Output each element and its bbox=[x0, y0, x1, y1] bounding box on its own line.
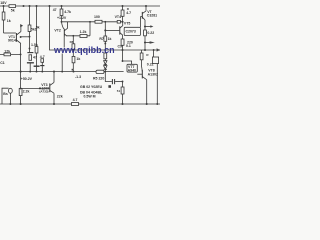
svg-text:www.qqibb.cn: www.qqibb.cn bbox=[53, 45, 115, 55]
arrow right edge bbox=[157, 48, 160, 51]
junction node (90,21.8) bbox=[89, 21, 91, 23]
wire VT1 emitter long vertical bbox=[20, 43, 22, 104]
svg-text:A940: A940 bbox=[128, 69, 136, 73]
transistor VT2 bbox=[62, 22, 64, 29]
svg-text:GB 02 Y02EU: GB 02 Y02EU bbox=[80, 85, 103, 89]
junction node (73.3,35.8) bbox=[72, 35, 74, 37]
junction node (145,26.5) bbox=[144, 25, 146, 27]
svg-text:C3281: C3281 bbox=[147, 14, 157, 18]
capacitor C2 electrolytic bbox=[27, 52, 33, 54]
svg-text:0.1: 0.1 bbox=[126, 44, 131, 48]
svg-text:VT5: VT5 bbox=[124, 22, 130, 26]
svg-text:R: R bbox=[146, 53, 149, 57]
svg-text:4.7k: 4.7k bbox=[64, 10, 71, 14]
svg-text:4.7: 4.7 bbox=[73, 98, 78, 102]
transistor VT4 bbox=[105, 29, 119, 31]
svg-text:4.7: 4.7 bbox=[40, 55, 45, 59]
wire top supply rail bbox=[0, 5, 160, 7]
diode VD2 bbox=[104, 66, 107, 70]
junction node (153.6,50) bbox=[153, 49, 155, 51]
junction node (36.5,71.6) bbox=[36, 71, 38, 73]
svg-text:1k: 1k bbox=[108, 37, 112, 41]
svg-text:1.5k: 1.5k bbox=[31, 43, 38, 47]
junction node (146.7,104) bbox=[146, 103, 148, 105]
resistor R13 bbox=[104, 53, 107, 59]
junction node (105.3,43.5) bbox=[104, 43, 106, 45]
svg-text:+50.2V: +50.2V bbox=[21, 77, 33, 81]
junction node (122.5,81.5) bbox=[122, 81, 124, 83]
junction node (29.5,48.5) bbox=[29, 48, 31, 50]
svg-text:12k: 12k bbox=[4, 49, 10, 53]
input source Bs bbox=[2, 88, 9, 104]
svg-text:R5 220: R5 220 bbox=[93, 77, 104, 81]
svg-text:A1302: A1302 bbox=[148, 73, 158, 77]
junction node (23.5,6) bbox=[22, 5, 24, 7]
resistor R15 bbox=[121, 10, 124, 16]
resistor R19 0.22 top bbox=[144, 30, 147, 36]
transistor VT7 bbox=[137, 73, 142, 75]
svg-text:VT4: VT4 bbox=[115, 15, 121, 19]
svg-text:0.5W M: 0.5W M bbox=[84, 94, 96, 98]
junction node (42.3,71.6) bbox=[41, 71, 43, 73]
junction node (54,104) bbox=[53, 103, 55, 105]
resistor R1 in rail bbox=[9, 5, 16, 8]
junction node (54,71.6) bbox=[53, 71, 55, 73]
wire arrow out2 bbox=[145, 42, 150, 44]
svg-text:C2073: C2073 bbox=[126, 30, 136, 34]
junction node (3.5,6) bbox=[2, 5, 4, 7]
resistor R5 in mid rail bbox=[96, 70, 104, 73]
junction node (105.3,71.6) bbox=[104, 71, 106, 73]
junction node (36.5,6) bbox=[35, 5, 37, 7]
junction node (145,50) bbox=[144, 49, 146, 51]
svg-text:100: 100 bbox=[94, 15, 100, 19]
transistor VT1 bbox=[15, 33, 17, 42]
junction node (146,6) bbox=[145, 5, 147, 7]
junction node (30.2,71.6) bbox=[29, 71, 31, 73]
resistor R10 in emitter wire bbox=[80, 35, 87, 38]
wire left column bbox=[3, 6, 5, 33]
svg-text:C1: C1 bbox=[0, 61, 5, 65]
svg-text:1.2k: 1.2k bbox=[80, 30, 87, 34]
junction dots bbox=[2, 5, 158, 105]
svg-text:R7: R7 bbox=[99, 37, 104, 41]
svg-text:51: 51 bbox=[117, 89, 121, 93]
svg-text:1k: 1k bbox=[7, 19, 11, 23]
junction node (157.3,104) bbox=[156, 103, 158, 105]
wire VT1 collector stub bbox=[20, 25, 22, 32]
junction node (61.5,6) bbox=[60, 5, 62, 7]
wire column x29.5 bbox=[29, 6, 31, 52]
svg-text:VT2: VT2 bbox=[54, 28, 60, 32]
svg-text:+1.2V: +1.2V bbox=[57, 16, 67, 20]
svg-text:(A733): (A733) bbox=[39, 89, 48, 93]
svg-text:0.22: 0.22 bbox=[147, 62, 154, 66]
wire stub under VT2 bbox=[63, 37, 65, 48]
wire y61 to driver box bbox=[123, 61, 132, 64]
resistor R12 bbox=[104, 36, 107, 41]
junction node (145,42.5) bbox=[144, 41, 146, 43]
junction node (73.5,71.6) bbox=[73, 71, 75, 73]
wire VT1 base bbox=[4, 32, 16, 34]
component small box in wire y21.8 bbox=[117, 21, 120, 24]
svg-text:47: 47 bbox=[53, 8, 57, 12]
resistor R16 in bottom rail bbox=[72, 103, 79, 106]
wire right edge down bbox=[156, 64, 158, 105]
junction node (105.3,30.4) bbox=[104, 29, 106, 31]
resistor R3 bbox=[28, 25, 31, 32]
wire column x36.5 bbox=[36, 6, 38, 66]
resistor R17 220 bbox=[121, 39, 124, 45]
svg-text:18V: 18V bbox=[0, 1, 7, 5]
capacitor C4 left small bbox=[41, 59, 44, 63]
junction node (20.6,54.4) bbox=[20, 53, 22, 55]
junction node (29.5,36.6) bbox=[29, 36, 31, 38]
svg-text:22k: 22k bbox=[57, 95, 63, 99]
resistor R5 bbox=[35, 47, 38, 54]
svg-text:47: 47 bbox=[33, 56, 37, 60]
junction node (20.6,88.4) bbox=[20, 87, 22, 89]
svg-text:5k: 5k bbox=[36, 26, 40, 30]
wire output column x145 bbox=[144, 20, 146, 50]
wire column x122.5 upper bbox=[122, 6, 124, 10]
diode VD1 bbox=[104, 61, 107, 65]
bottom ground rail bbox=[0, 103, 160, 105]
svg-text:1k: 1k bbox=[76, 57, 80, 61]
transistor VT6 bbox=[141, 16, 143, 18]
wire x105 lower corner to cap bbox=[105, 72, 112, 82]
junction node (122.5,50) bbox=[121, 49, 123, 51]
mid rail wire bbox=[0, 71, 124, 73]
svg-text:-1.3: -1.3 bbox=[75, 75, 81, 79]
junction node (122.5,21.8) bbox=[121, 21, 123, 23]
resistor R7 top bbox=[61, 6, 63, 22]
resistor R6 input bbox=[4, 53, 11, 56]
resistor R11 in y21.8 wire bbox=[95, 20, 102, 23]
capacitor C5 bbox=[111, 79, 113, 84]
junction node (122.5,6) bbox=[121, 5, 123, 7]
junction node (29.5,6) bbox=[28, 5, 30, 7]
junction node (20.6,37) bbox=[20, 36, 22, 38]
svg-text:0.22: 0.22 bbox=[147, 31, 154, 35]
text labels bbox=[0, 1, 158, 102]
wire x90 vertical bbox=[89, 22, 91, 36]
junction node (62.2,71.6) bbox=[61, 71, 63, 73]
svg-text:Bs: Bs bbox=[3, 92, 8, 96]
junction node (20.6,71.6) bbox=[20, 71, 22, 73]
junction node (122.5,61) bbox=[122, 60, 124, 62]
label box right speaker bbox=[153, 50, 155, 57]
resistor R14 bbox=[122, 82, 124, 105]
junction node (10.4,104) bbox=[9, 103, 11, 105]
wire column x49.5 bbox=[50, 6, 161, 50]
svg-text:9014: 9014 bbox=[8, 38, 16, 42]
svg-text:R8: R8 bbox=[70, 40, 74, 44]
wire feedback y37 bbox=[21, 36, 30, 38]
junction node (105.3,21.8) bbox=[104, 21, 106, 23]
wire arrow out1 bbox=[145, 26, 151, 28]
transistor VT3 bbox=[21, 87, 50, 89]
resistor R2 bbox=[2, 12, 5, 20]
label box VT4 part bbox=[124, 27, 140, 35]
junction node (20.6,104) bbox=[20, 103, 22, 105]
wire column x105 bbox=[104, 22, 106, 72]
resistor R9 bbox=[72, 56, 75, 62]
resistor R20 2.2k bbox=[19, 88, 22, 95]
resistor R18 0.22 bottom bbox=[141, 50, 143, 53]
svg-text:5k: 5k bbox=[11, 8, 15, 12]
junction node (61.5,21.8) bbox=[61, 21, 63, 23]
wire input y54.5 bbox=[0, 53, 21, 55]
wire y21.8 bbox=[62, 21, 123, 23]
label box VT7 part bbox=[127, 64, 137, 72]
capacitor C3 plate bbox=[34, 65, 40, 67]
junction node (105.3,50) bbox=[104, 49, 106, 51]
junction node (49.5,6) bbox=[48, 5, 50, 7]
resistor R8 bbox=[72, 36, 74, 72]
label blob C5 value bbox=[108, 85, 111, 88]
svg-text:C9: C9 bbox=[118, 45, 123, 49]
junction node (122.5,104) bbox=[121, 103, 123, 105]
svg-text:2.2k: 2.2k bbox=[23, 90, 30, 94]
svg-text:4.7: 4.7 bbox=[126, 11, 131, 15]
wire emitter y35.8 bbox=[66, 35, 90, 37]
